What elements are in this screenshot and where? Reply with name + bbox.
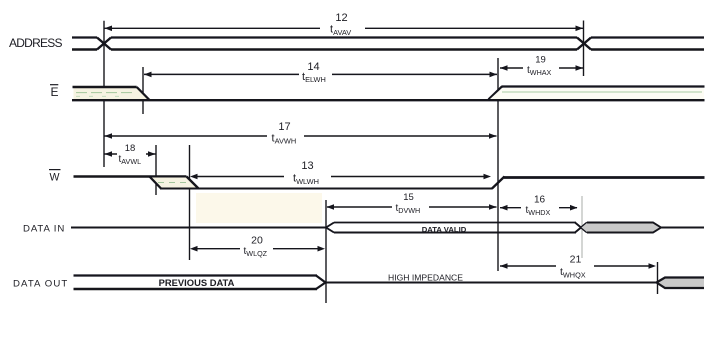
- svg-text:ADDRESS: ADDRESS: [9, 36, 63, 50]
- node: extension line V9 at data-out change x=657.5: [657, 262, 659, 294]
- wire: W rising edge: [492, 177, 505, 189]
- wire: W fall diagonal 1: [150, 177, 162, 189]
- wire: data-out high impedance line: [326, 282, 657, 284]
- svg-text:16: 16: [534, 194, 546, 205]
- wire: W fall diagonal 2: [187, 177, 199, 189]
- wire: data-out previous data bottom rail: [74, 288, 318, 290]
- dimension 16 tWHDX line: [500, 207, 577, 209]
- dimension 12 tAVAV line: [105, 27, 584, 29]
- svg-text:DATA IN: DATA IN: [23, 224, 65, 235]
- node: extension line V7 at address end x=583.5: [583, 21, 585, 77]
- svg-text:DATA OUT: DATA OUT: [13, 278, 68, 289]
- wire: data-out previous data top rail: [74, 274, 318, 276]
- node: extension line V2 at E fall x=143: [142, 67, 144, 114]
- node: address crossover X2: [577, 38, 591, 50]
- node: extension line V1 at address change x=104: [103, 21, 105, 167]
- svg-text:HIGH IMPEDANCE: HIGH IMPEDANCE: [388, 272, 463, 282]
- wire: E high fill left segment: [74, 88, 150, 100]
- wire: data-in single line: [71, 227, 327, 229]
- svg-text:17: 17: [278, 121, 290, 133]
- node: extension line V3 at W fall start x=156: [155, 145, 157, 195]
- dimension 21 tWHQX line: [500, 265, 650, 267]
- wire: E top rail left: [73, 86, 137, 88]
- wire: data valid top rail: [334, 222, 576, 224]
- svg-text:W: W: [50, 171, 60, 183]
- dimension 18 tAVWL line: [105, 153, 156, 155]
- node: address crossover X1: [97, 38, 111, 50]
- wire: data valid bottom rail: [334, 231, 576, 233]
- svg-text:DATA VALID: DATA VALID: [422, 225, 467, 234]
- svg-text:20: 20: [251, 235, 263, 247]
- wire: data-in new data hexagon (gray): [582, 223, 662, 233]
- node: faint extension line V8 x=582: [581, 196, 583, 258]
- wire: data-out bus close: [316, 276, 326, 290]
- wire: E low / bottom rail: [72, 99, 705, 101]
- dimension 13 tWLWH line: [196, 176, 485, 178]
- wire: W high rail left: [74, 175, 187, 177]
- wire: W high rail right: [504, 176, 705, 179]
- dimension 20 tWLQZ line: [196, 248, 318, 250]
- wire: E top rail right with pale fill: [490, 88, 704, 99]
- dimension 15 tDVWH line: [327, 206, 497, 208]
- dimension 17 tAVWH line: [105, 135, 497, 137]
- svg-text:E: E: [51, 85, 59, 99]
- wire: E rising edge: [489, 87, 503, 100]
- wire: data-in single line right: [661, 227, 704, 229]
- svg-text:12: 12: [335, 12, 347, 24]
- wire: address bus bottom rail: [72, 48, 704, 51]
- svg-text:15: 15: [403, 192, 414, 203]
- svg-text:PREVIOUS DATA: PREVIOUS DATA: [159, 277, 235, 288]
- dimension 19 tWHAX line: [500, 67, 583, 69]
- don't-care cream region under W/DATA IN: [196, 193, 322, 223]
- wire: W fall transition window fill: [151, 178, 199, 189]
- svg-text:14: 14: [307, 61, 319, 73]
- svg-text:13: 13: [301, 160, 313, 172]
- dimension 14 tELWH line: [144, 73, 497, 75]
- wire: data-in bus open split: [326, 223, 334, 233]
- node: extension line V6 at W rise x=498: [497, 58, 499, 271]
- wire: W low rail: [160, 188, 493, 190]
- svg-text:19: 19: [535, 55, 546, 66]
- wire: data-out new data hexagon (gray) open right: [657, 278, 705, 289]
- svg-text:21: 21: [570, 254, 582, 266]
- svg-text:18: 18: [125, 143, 136, 154]
- wire: E falling edge: [137, 87, 150, 100]
- node: data-in crossover X: [575, 223, 587, 233]
- node: extension line V5 at data-in valid x=326: [325, 200, 327, 303]
- wire: address bus top rail: [72, 36, 704, 38]
- node: extension line V4 at W low x=189.5: [189, 145, 191, 260]
